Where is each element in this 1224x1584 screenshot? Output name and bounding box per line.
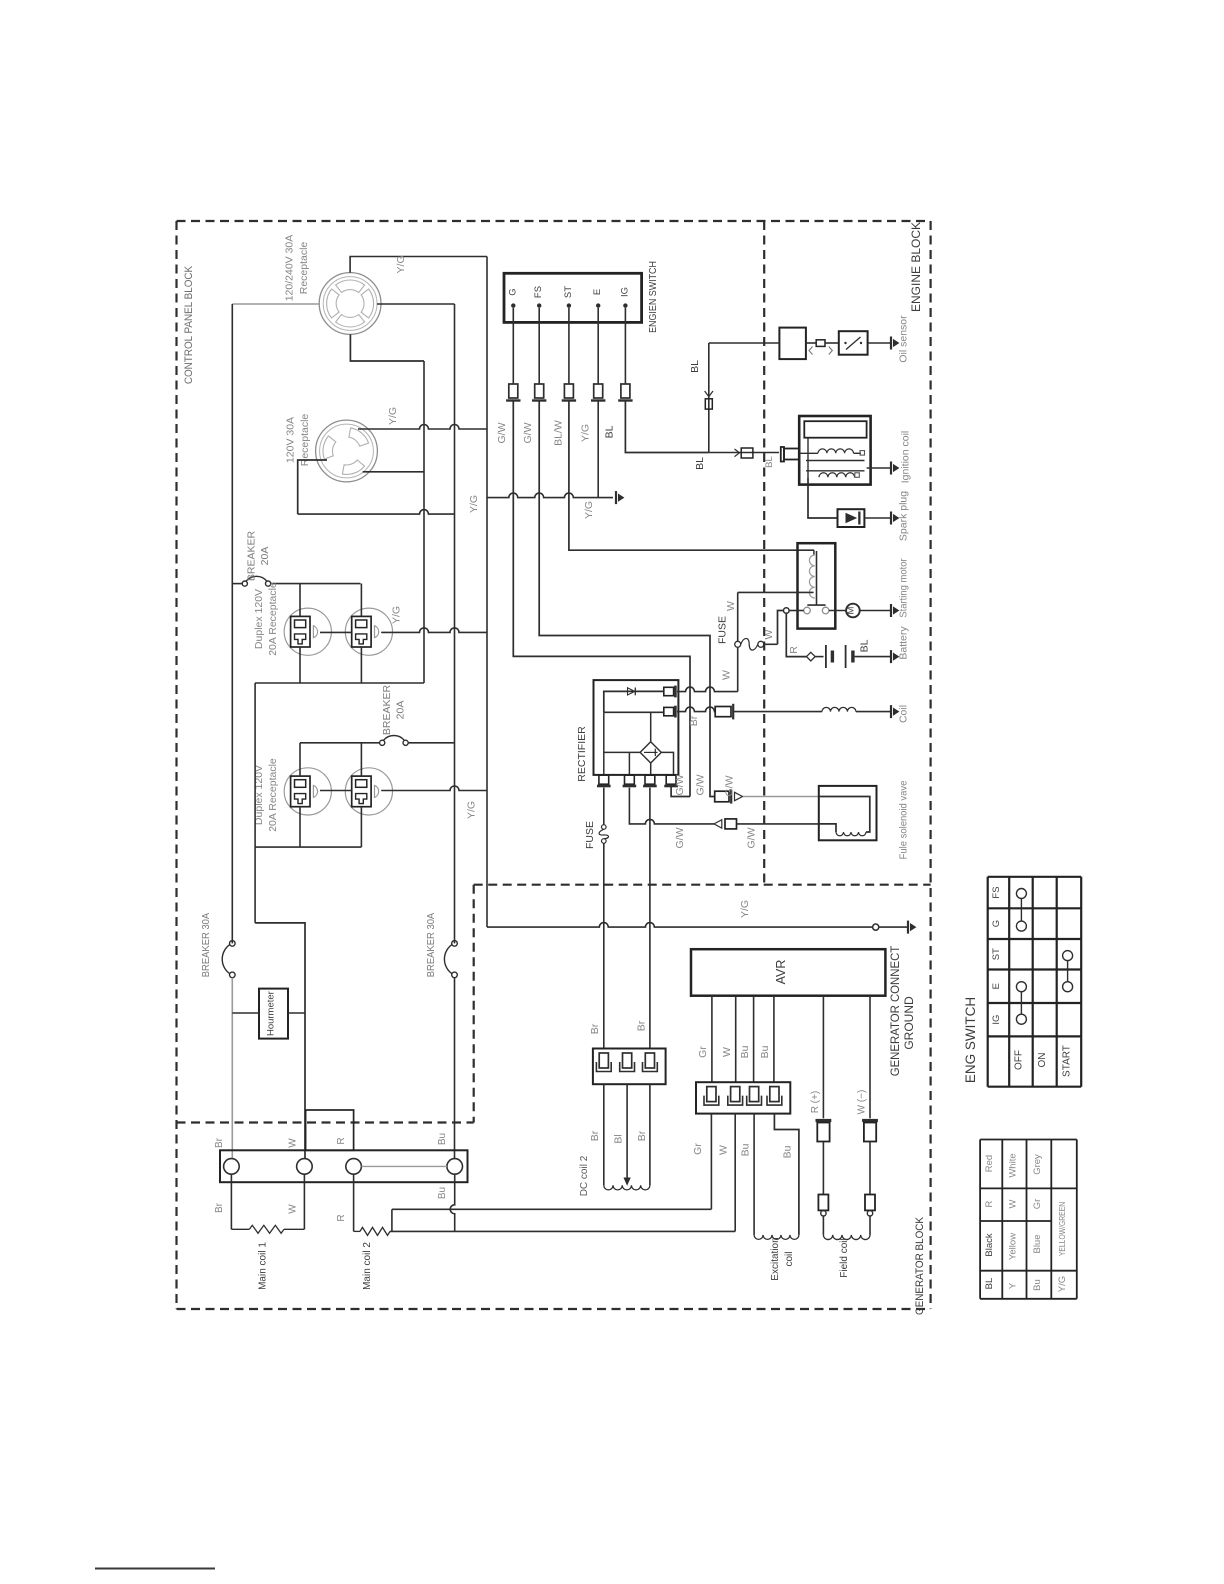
ignition coil primary winding	[818, 449, 854, 453]
receptacle 120V slot bottom	[342, 460, 364, 474]
svg-text:Bu: Bu	[437, 1133, 448, 1145]
spark plug box	[838, 509, 865, 527]
oil connector arrow left	[809, 347, 813, 355]
receptacle 120/240V slot bottom	[336, 315, 365, 328]
solenoid upper arrow	[735, 792, 743, 800]
oil connector arrow right	[829, 347, 833, 355]
wire AVR pin Gr	[711, 996, 713, 1082]
wire Y/G from 120/240V top pin	[350, 257, 487, 273]
wire AVR pin Bu1	[753, 996, 755, 1082]
wire neutral riser px255	[254, 683, 256, 923]
wire W- from AVR	[869, 996, 871, 1119]
starter relay box	[798, 543, 836, 628]
svg-text:Bu: Bu	[437, 1187, 448, 1199]
svg-text:Gr: Gr	[697, 1046, 709, 1058]
ignition coil mid bar 1	[806, 460, 865, 462]
svg-text:W (−): W (−)	[857, 1090, 868, 1115]
svg-text:Y/G: Y/G	[739, 900, 751, 918]
wire W below connector	[734, 1114, 736, 1232]
fuse DC pin1	[599, 1053, 608, 1068]
svg-text:Battery: Battery	[898, 626, 910, 660]
relay contact A	[804, 607, 811, 614]
svg-text:FS: FS	[533, 286, 544, 298]
svg-text:Grey: Grey	[1032, 1154, 1043, 1175]
wire duplex1 neutral bottom	[255, 682, 424, 684]
fuse W symbol	[735, 641, 741, 647]
wire BL to ignition coil	[709, 452, 779, 454]
receptacle 120/240V slot top	[336, 280, 365, 293]
breaker 30A #2	[452, 941, 458, 947]
exciter coil winding	[822, 707, 856, 711]
wire Y/G ground bus horizontal	[487, 493, 613, 498]
svg-text:Receptacle: Receptacle	[299, 414, 311, 467]
wire grey link R-Bu	[361, 1165, 447, 1167]
ignition coil secondary winding	[819, 473, 855, 477]
svg-text:Fule solenoid vave: Fule solenoid vave	[898, 780, 910, 859]
svg-text:G/W: G/W	[746, 827, 758, 848]
dashed divider control-panel bottom	[177, 1121, 474, 1123]
svg-text:Br: Br	[589, 1130, 601, 1141]
svg-text:ST: ST	[563, 286, 574, 298]
svg-text:BL: BL	[984, 1278, 995, 1290]
svg-text:ST: ST	[991, 948, 1002, 960]
wire from 120/240V right pin	[377, 303, 455, 305]
W- connector upper	[862, 1119, 878, 1122]
svg-text:Main coil 1: Main coil 1	[258, 1242, 269, 1290]
svg-text:R: R	[336, 1214, 347, 1221]
svg-text:20A Receptacle: 20A Receptacle	[267, 758, 279, 832]
ignition coil core	[804, 421, 866, 438]
wire W- mid	[869, 1142, 871, 1195]
dashed border top	[177, 220, 931, 222]
rectifier pin 3	[645, 775, 655, 784]
receptacle 120/240V slot left	[327, 289, 340, 318]
DC coil 3-pin connector box	[593, 1049, 666, 1085]
svg-text:GENERATOR BLOCK: GENERATOR BLOCK	[915, 1217, 927, 1315]
wire hourmeter right lead	[288, 1012, 305, 1014]
wire outlet2A bottom stub	[299, 807, 301, 847]
wire BL/W from ST down to relay	[569, 401, 814, 551]
spark plug electrode triangle	[846, 514, 856, 523]
receptacle 120V slot top-right	[349, 428, 369, 446]
svg-text:R (+): R (+)	[810, 1091, 821, 1114]
ignition coil left lead	[807, 438, 809, 478]
AVR 4-pin connector box	[696, 1082, 790, 1113]
table OFF contacts E-IG	[1016, 982, 1026, 992]
fuse AVR pin3	[750, 1087, 759, 1102]
fuse AVR pin2	[731, 1087, 740, 1102]
rectifier bullet 1	[664, 687, 674, 695]
svg-text:Blue: Blue	[1032, 1234, 1043, 1253]
main coil 2	[360, 1227, 390, 1235]
svg-text:Y/G: Y/G	[1057, 1276, 1068, 1292]
engine switch pin ST	[567, 303, 571, 307]
svg-text:Br: Br	[688, 715, 700, 726]
relay coil winding grey	[809, 555, 814, 598]
fuse DC pin3	[645, 1053, 654, 1068]
svg-text:Black: Black	[984, 1233, 995, 1256]
wire Y/G from E down	[597, 401, 599, 498]
wire Y/G generator ground run	[487, 923, 873, 928]
fuse pin FS	[535, 384, 544, 398]
BL connector bullet	[705, 399, 712, 409]
svg-text:Y: Y	[1008, 1282, 1019, 1289]
wire below breaker30A#2 to Bu terminal	[454, 978, 456, 1159]
svg-text:GROUND: GROUND	[902, 996, 916, 1050]
svg-text:Y/G: Y/G	[583, 501, 595, 519]
svg-text:FS: FS	[991, 886, 1002, 898]
svg-text:W: W	[720, 670, 732, 680]
wire left px232 vertical (Br)	[231, 304, 233, 943]
BL connector chevron	[705, 391, 713, 397]
wire battery to ground	[855, 656, 891, 658]
battery cell 1 long plate	[825, 645, 827, 668]
ignition wire chevron	[735, 449, 740, 457]
wire oil unit to connector	[806, 342, 816, 344]
svg-text:W: W	[725, 601, 737, 611]
receptacle 120V slot left	[323, 436, 336, 459]
wire outlet2A top stub	[299, 743, 301, 776]
field coil	[823, 1235, 870, 1240]
table OFF contacts FS-G	[1016, 889, 1026, 899]
receptacle 120V 30A body	[316, 420, 378, 482]
ENG SWITCH table grid	[987, 877, 989, 1087]
control panel / generator block dashed border left	[175, 221, 177, 1309]
receptacle 120/240V slot right	[361, 289, 374, 318]
svg-text:Gr: Gr	[1032, 1199, 1043, 1210]
fuse AVR pin1	[707, 1087, 716, 1102]
svg-text:GENERATOR CONNECT: GENERATOR CONNECT	[889, 946, 902, 1077]
rectifier bridge stubs	[650, 712, 652, 742]
Y/G ground connector circle	[873, 924, 879, 930]
svg-text:G/W: G/W	[724, 775, 736, 796]
svg-text:ENGINE BLOCK: ENGINE BLOCK	[909, 222, 923, 312]
svg-text:Br: Br	[214, 1202, 225, 1213]
battery cell 2 short plate	[851, 651, 854, 663]
svg-text:IG: IG	[619, 287, 630, 297]
svg-text:Bu: Bu	[759, 1045, 771, 1058]
svg-text:ENGIEN SWITCH: ENGIEN SWITCH	[647, 261, 659, 333]
wire neutral jog to W terminal	[255, 923, 305, 1159]
wire duplex2 ground link	[320, 790, 352, 792]
svg-text:E: E	[991, 983, 1002, 989]
svg-text:Bl: Bl	[613, 1134, 625, 1143]
wire BL from IG down	[625, 401, 708, 453]
svg-text:Y/G: Y/G	[395, 255, 407, 273]
svg-text:120V 30A: 120V 30A	[285, 417, 297, 463]
ignition plug body	[784, 449, 799, 460]
wire G/W from G down	[513, 401, 690, 797]
junction circle W/battery	[784, 608, 790, 614]
svg-text:Y/G: Y/G	[465, 801, 477, 819]
wire line B (W) to AVR connector	[390, 1230, 735, 1232]
excitation coil	[754, 1235, 799, 1239]
fuel solenoid coil	[836, 832, 866, 836]
svg-text:BL/W: BL/W	[553, 420, 565, 446]
wire G/W rectifier pin2 to solenoid	[629, 788, 714, 824]
wire connector to oil switch	[825, 342, 839, 344]
svg-text:G/W: G/W	[674, 827, 686, 848]
duplex receptacle #2 outlet A	[284, 768, 331, 815]
table START contacts ST-E	[1063, 951, 1073, 961]
ignition wire bullet	[741, 448, 753, 458]
svg-text:AVR: AVR	[774, 960, 788, 985]
svg-text:FUSE: FUSE	[584, 821, 596, 849]
svg-text:20A: 20A	[395, 701, 407, 720]
rectifier pin 4	[666, 775, 676, 784]
engine switch pin E	[596, 303, 600, 307]
svg-text:ENG SWITCH: ENG SWITCH	[963, 997, 978, 1083]
rectifier pin 2	[625, 775, 635, 784]
battery connector diamond	[807, 652, 816, 661]
ground starting motor	[890, 604, 892, 617]
svg-text:FUSE: FUSE	[717, 616, 729, 644]
wire motor to ground	[860, 610, 891, 612]
fuse pin E	[594, 384, 603, 398]
solenoid lower bullet	[725, 819, 737, 829]
engine switch pin FS	[537, 303, 541, 307]
wire Br terminal down	[230, 1174, 232, 1229]
terminal block	[220, 1150, 468, 1182]
svg-text:Ignition coil: Ignition coil	[900, 431, 912, 484]
fuel solenoid box	[819, 786, 877, 840]
svg-text:BL: BL	[764, 456, 775, 468]
wire from 120V left slot	[298, 460, 327, 514]
DC coil winding	[604, 1185, 650, 1190]
wire duplex2 neutral bottom	[255, 846, 361, 848]
svg-text:20A: 20A	[259, 547, 271, 566]
wire BL oil unit left	[709, 342, 780, 344]
svg-text:Hourmeter: Hourmeter	[266, 991, 277, 1036]
R+ connector upper	[816, 1119, 832, 1122]
svg-text:START: START	[1062, 1045, 1073, 1077]
wire neutral px424 vertical	[423, 361, 425, 683]
svg-text:Yellow: Yellow	[1008, 1233, 1019, 1260]
wire from 120V bottom slot	[363, 471, 424, 473]
wire oil switch to ground	[868, 342, 891, 344]
wire battery feed from junction	[786, 613, 806, 656]
svg-text:Y/G: Y/G	[468, 495, 480, 513]
svg-text:W: W	[763, 629, 775, 639]
wire coil to ground	[856, 711, 891, 713]
svg-text:ON: ON	[1037, 1053, 1048, 1068]
wire Y/G from 120V top-right slot	[358, 425, 487, 430]
main coil 1	[249, 1225, 284, 1233]
rectifier bridge diamond	[640, 742, 661, 763]
terminal R	[346, 1159, 362, 1175]
R+ connector lower	[818, 1195, 828, 1211]
ground generator connect	[907, 921, 909, 934]
fuse AVR pin4	[770, 1087, 779, 1102]
W- connector lower	[865, 1195, 875, 1211]
duplex receptacle #1 outlet B	[345, 608, 392, 655]
wire stub main coil2 to line A	[391, 1209, 393, 1231]
engine switch box	[504, 273, 642, 322]
svg-text:Bu: Bu	[782, 1145, 794, 1158]
svg-text:Bu: Bu	[740, 1143, 752, 1156]
oil switch blade	[846, 337, 861, 350]
svg-text:Br: Br	[589, 1023, 601, 1034]
rectifier top loop	[604, 691, 664, 712]
svg-text:coil: coil	[784, 1251, 795, 1266]
svg-text:BL: BL	[694, 457, 706, 470]
svg-text:YELLOW/GREEN: YELLOW/GREEN	[1057, 1202, 1067, 1256]
wire duplex1 ground link	[320, 631, 352, 633]
svg-text:W: W	[288, 1204, 299, 1214]
svg-text:Y/G: Y/G	[387, 407, 399, 425]
svg-text:BL: BL	[689, 360, 701, 373]
wire lower bullet to solenoid box	[737, 823, 819, 825]
wire Br rectifier pin1 down	[603, 788, 605, 825]
svg-text:CONTROL PANEL BLOCK: CONTROL PANEL BLOCK	[184, 266, 196, 384]
wire outlet1B bottom stub	[360, 647, 362, 683]
wire W- to field coil	[869, 1216, 871, 1235]
svg-text:Coil: Coil	[898, 705, 910, 723]
svg-text:Main coil 2: Main coil 2	[362, 1242, 373, 1290]
W- terminal circle	[867, 1211, 872, 1216]
wire W vertical rectifier to fuse	[737, 592, 739, 641]
ground oil sensor	[890, 337, 892, 350]
svg-text:W: W	[288, 1138, 299, 1148]
wire rectifier pin4 elbow to G wire	[671, 787, 690, 797]
svg-text:Duplex 120V: Duplex 120V	[253, 589, 265, 649]
wire outlet1A bottom stub	[299, 647, 301, 683]
breaker 20A #2	[300, 742, 380, 744]
terminal W	[297, 1159, 313, 1175]
svg-text:Y/G: Y/G	[580, 424, 592, 442]
svg-text:G/W: G/W	[674, 774, 686, 795]
wire 120V left slot to neutral bus	[298, 510, 455, 515]
wire Bu terminal down with hop over line A	[450, 1174, 455, 1231]
svg-text:DC coil 2: DC coil 2	[579, 1155, 590, 1196]
ignition coil mid bar 2	[806, 470, 865, 472]
wire rectifier bullet1 to W fuse	[677, 687, 738, 692]
wire AVR pin Bu2	[773, 996, 775, 1082]
wire DC coil lead 1	[603, 1084, 605, 1185]
svg-text:BL: BL	[604, 425, 616, 438]
wire hourmeter left lead	[232, 1012, 259, 1014]
AVR box	[691, 949, 885, 996]
fuse DC pin2	[623, 1053, 632, 1068]
relay coil lead stub	[813, 550, 815, 554]
wire duplex1 ground to Y/G bus	[381, 628, 487, 633]
rectifier pin 1	[599, 775, 609, 784]
wire R+ to field coil	[822, 1216, 824, 1235]
svg-text:W: W	[1008, 1199, 1019, 1208]
wire G/W FS to solenoid bullet	[715, 791, 729, 802]
svg-text:G: G	[991, 920, 1002, 927]
wire hot bus px454 vertical	[454, 304, 456, 943]
svg-text:G/W: G/W	[496, 422, 508, 443]
wire grey from 120/240V left pin	[232, 303, 318, 305]
svg-text:E: E	[592, 289, 603, 295]
wire duplex2 ground to Y/G bus	[381, 786, 487, 791]
wire W terminal down	[303, 1174, 305, 1229]
svg-text:Br: Br	[214, 1137, 225, 1148]
wire R+ from AVR	[822, 996, 824, 1119]
receptacle 120/240V 30A body	[319, 273, 381, 335]
wire Y/G main vertical bus	[486, 257, 488, 928]
wire from 120/240V bottom pin	[350, 334, 424, 361]
wire grey to solenoid	[743, 796, 819, 798]
breaker 30A #1	[230, 941, 236, 947]
Br connector	[715, 707, 731, 717]
svg-text:Spark plug: Spark plug	[898, 491, 910, 541]
engine switch pin IG	[623, 303, 627, 307]
svg-text:Gr: Gr	[692, 1143, 704, 1155]
wire BL vertical to junction	[708, 343, 710, 453]
svg-text:W: W	[718, 1145, 730, 1155]
wire R+ mid	[822, 1142, 824, 1195]
spark plug electrode bar	[858, 512, 860, 525]
svg-text:Field coil: Field coil	[839, 1238, 850, 1277]
legend table grid	[979, 1140, 981, 1299]
svg-text:BREAKER: BREAKER	[381, 684, 393, 735]
dashed border bottom	[177, 1308, 931, 1310]
ignition plug bar	[781, 447, 784, 462]
svg-text:G/W: G/W	[522, 422, 534, 443]
rectifier box	[594, 680, 679, 775]
relay contact B	[822, 607, 829, 614]
wire AVR pin W	[735, 996, 737, 1082]
svg-text:R: R	[984, 1200, 995, 1207]
wire outlet1A top stub	[299, 584, 301, 617]
dashed divider control-panel / engine block	[763, 221, 765, 885]
duplex receptacle #1 outlet A	[284, 608, 331, 655]
svg-text:BL: BL	[859, 639, 871, 652]
svg-text:Receptacle: Receptacle	[298, 242, 310, 295]
wire rectifier bullet2 to Br connector	[677, 707, 715, 712]
svg-text:120/240V 30A: 120/240V 30A	[283, 235, 295, 302]
svg-text:IG: IG	[991, 1015, 1002, 1025]
wire Br to coil	[733, 711, 822, 713]
ignition coil outer box	[799, 416, 870, 485]
fuse pin ST	[564, 384, 573, 398]
oil connector bullet	[816, 340, 825, 347]
svg-text:20A Receptacle: 20A Receptacle	[267, 582, 279, 656]
ground exciter coil	[890, 705, 892, 718]
oil pressure switch box	[839, 331, 868, 355]
wire DC coil lead 3	[649, 1084, 651, 1185]
wire Bu below connector	[753, 1114, 755, 1235]
ignition coil primary lead	[799, 452, 818, 454]
wire R terminal down	[353, 1174, 355, 1231]
svg-text:White: White	[1008, 1153, 1019, 1177]
wire grey below breaker30A#1	[231, 978, 233, 1159]
svg-text:W: W	[721, 1047, 733, 1057]
fuse pin IG	[621, 384, 630, 398]
wire DC coil lead 2 (Bl)	[626, 1084, 628, 1178]
rectifier bullet 2	[664, 707, 674, 715]
svg-text:Br: Br	[636, 1020, 648, 1031]
svg-text:M: M	[845, 606, 856, 614]
svg-text:G: G	[507, 288, 518, 295]
fuse pin G	[509, 384, 518, 398]
rectifier diode	[628, 688, 635, 695]
svg-text:G/W: G/W	[695, 774, 707, 795]
battery cell 1 short plate	[831, 651, 834, 663]
wire relay contact line	[789, 610, 804, 612]
ground battery	[890, 650, 892, 663]
svg-text:BREAKER 30A: BREAKER 30A	[201, 912, 213, 977]
wire ignition coil to ground	[867, 467, 891, 469]
relay coil bottom lead	[738, 591, 814, 593]
solenoid lower arrow	[714, 820, 722, 828]
svg-text:R: R	[336, 1137, 347, 1144]
wire Bu2 below connector jog	[774, 1114, 799, 1235]
dashed divider engine block bottom	[474, 884, 931, 886]
wire Br rectifier pin3 down	[649, 788, 651, 1049]
